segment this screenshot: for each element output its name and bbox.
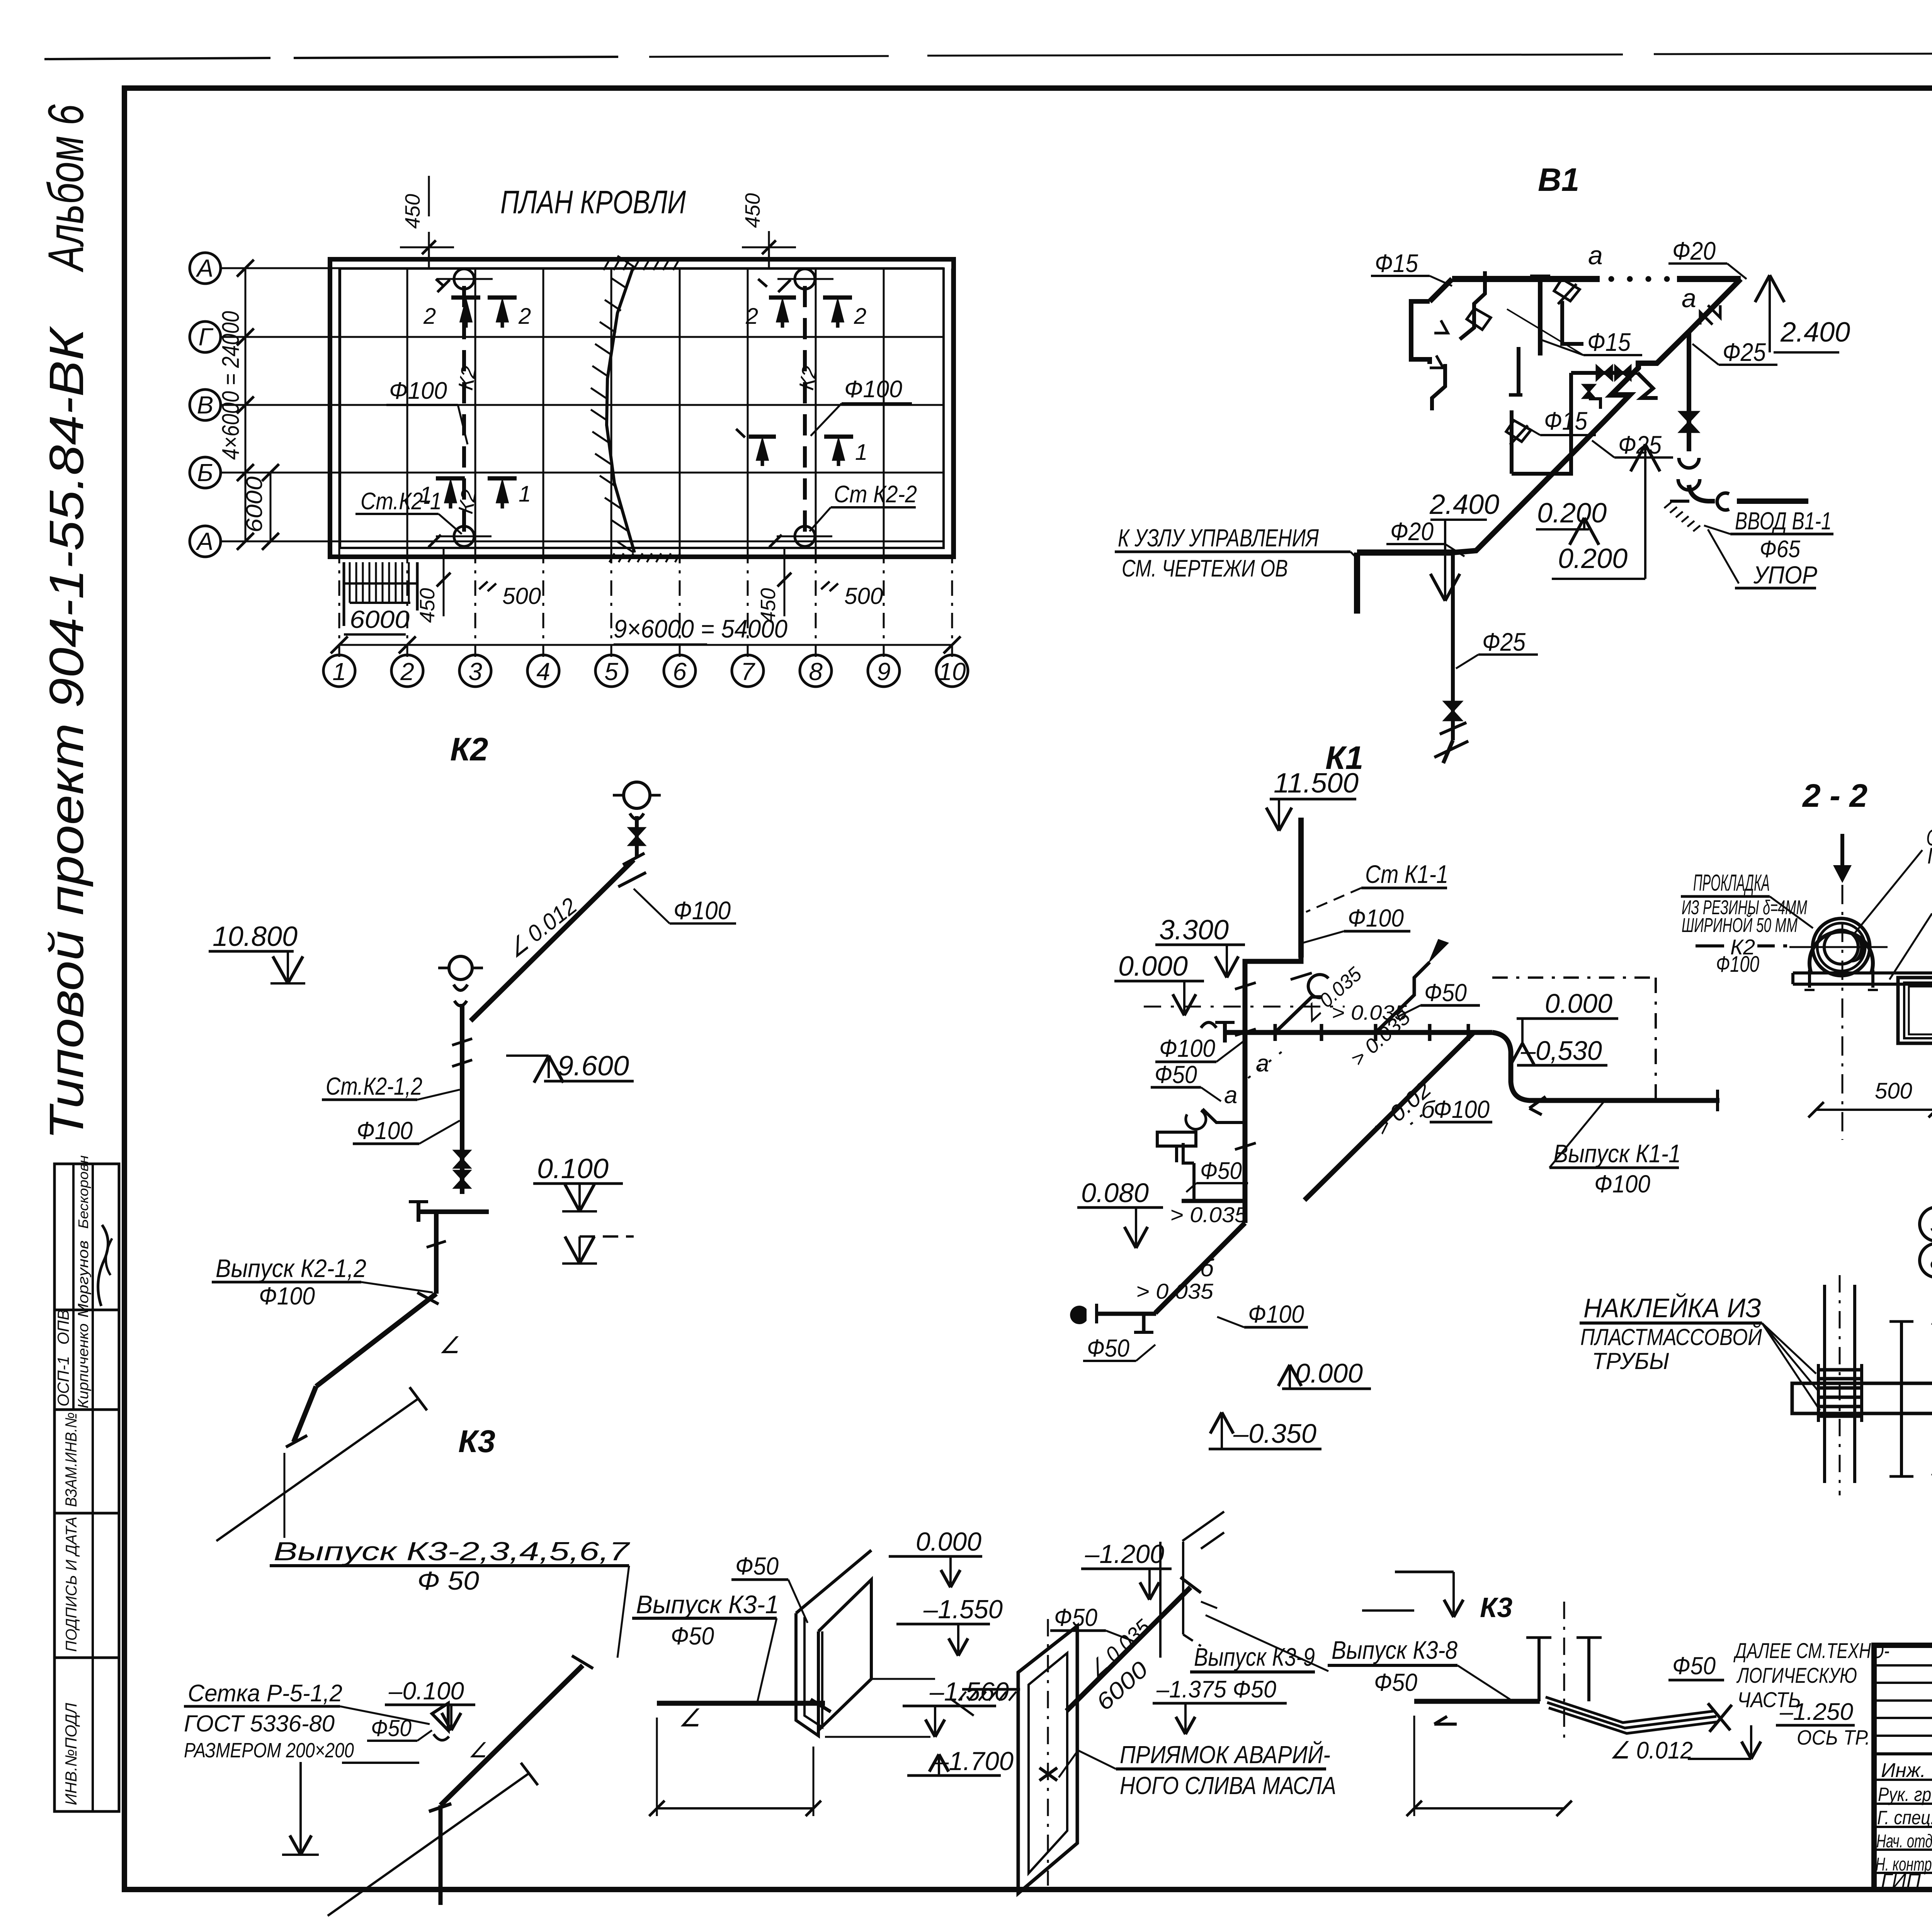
K1 main horizontal collector: [1225, 1030, 1492, 1035]
roof plan vertical grid lines: [338, 269, 340, 548]
dimension 450 top left bay: [428, 232, 430, 268]
svg-text:Ф100: Ф100: [1248, 1300, 1304, 1328]
svg-text:1: 1: [855, 440, 867, 465]
svg-text:Ф20: Ф20: [1672, 236, 1716, 265]
svg-text:ПЛАН КРОВЛИ: ПЛАН КРОВЛИ: [500, 184, 686, 220]
svg-text:ОСЬ ТР.: ОСЬ ТР.: [1797, 1726, 1870, 1749]
K3-8 pipe bundle right: [1546, 1697, 1715, 1723]
B1 check valve on diagonal: [1708, 305, 1720, 318]
K1 bottom horizontal with trap: [1097, 1312, 1156, 1316]
dimension 450 bottom left bay: [443, 548, 445, 616]
svg-text:6000: 6000: [350, 605, 410, 633]
svg-text:ШИРИНОЙ 50 ММ: ШИРИНОЙ 50 ММ: [1682, 914, 1798, 937]
svg-text:В1: В1: [1538, 162, 1579, 198]
K2 vertical drop outside: [434, 1212, 439, 1294]
svg-text:К3: К3: [1480, 1592, 1512, 1623]
paper top trim line: [44, 58, 270, 59]
B1 elbow to entry pipe: [1689, 485, 1715, 501]
B1 main diagonal from top right: [1689, 279, 1741, 332]
svg-text:В: В: [197, 391, 214, 419]
svg-text:10.800: 10.800: [213, 921, 298, 952]
svg-text:Г. спец.: Г. спец.: [1877, 1807, 1932, 1828]
fire ladder symbol bottom left of plan: [343, 562, 345, 626]
svg-text:2.400: 2.400: [1429, 489, 1499, 520]
svg-text:–0.350: –0.350: [1233, 1418, 1316, 1449]
K1 right outlet bend: [1492, 1032, 1568, 1100]
svg-text:0.000: 0.000: [1545, 988, 1612, 1019]
svg-text:Альбом 6: Альбом 6: [37, 104, 94, 272]
K2 parallel ground diagonal: [216, 1399, 418, 1541]
svg-text:ПРОКЛАДКА: ПРОКЛАДКА: [1693, 870, 1770, 896]
riser K2-2 bottom circle StK2-2: [795, 526, 815, 546]
2-2 truss chord box below: [1898, 978, 1932, 1043]
svg-text:ОПВ: ОПВ: [54, 1310, 72, 1345]
B1 compensator hooks: [1679, 458, 1699, 468]
svg-text:Ф100: Ф100: [1716, 952, 1759, 977]
svg-text:–0.100: –0.100: [388, 1677, 464, 1705]
svg-text:Ф100: Ф100: [389, 378, 447, 404]
svg-text:ИНВ.№ПОДЛ: ИНВ.№ПОДЛ: [62, 1703, 80, 1805]
svg-text:К2: К2: [454, 488, 481, 515]
svg-text:Моргунов: Моргунов: [75, 1240, 92, 1318]
svg-text:–1.200: –1.200: [1085, 1539, 1164, 1569]
K1 sink fixture above: [1183, 1143, 1194, 1163]
svg-text:2: 2: [854, 304, 866, 329]
riser K2-2 top circle: [795, 269, 815, 289]
svg-text:1: 1: [519, 481, 531, 507]
svg-text:Ф15: Ф15: [1587, 328, 1631, 356]
K3-8 left arrow: [1434, 1723, 1457, 1726]
svg-text:Б: Б: [197, 459, 213, 486]
svg-text:–1.375 Ф50: –1.375 Ф50: [1156, 1676, 1276, 1703]
svg-text:8: 8: [1930, 1248, 1932, 1274]
K2 level 9.600: [548, 1056, 550, 1078]
svg-text:Ст К2-2: Ст К2-2: [834, 481, 917, 508]
K1 lower diagonal b: [1155, 1223, 1245, 1313]
nakleika center dash line: [1839, 1275, 1841, 1495]
K3-2 lower bend: [439, 1805, 443, 1851]
svg-text:ВВОД В1-1: ВВОД В1-1: [1735, 507, 1832, 535]
svg-text:450: 450: [416, 588, 439, 623]
B1 level 2.400 left: [1444, 520, 1446, 601]
K2 crossing mark on diagonal top: [623, 853, 645, 865]
roof plan top edge hatching near joint: [604, 261, 609, 270]
svg-text:ПРИЯМОК АВАРИЙ-: ПРИЯМОК АВАРИЙ-: [1120, 1740, 1330, 1769]
svg-text:А: А: [196, 254, 214, 282]
svg-text:Ф100: Ф100: [1348, 904, 1404, 932]
svg-text:2: 2: [518, 304, 531, 329]
svg-text:9.600: 9.600: [558, 1051, 629, 1082]
B1 level mark 0.200 center-right: [1644, 444, 1646, 579]
K1 big diagonal to outlet b: [1304, 1032, 1474, 1200]
svg-text:Ф25: Ф25: [1723, 338, 1766, 366]
K1 dashed reference box right: [1492, 976, 1656, 979]
svg-text:Ф50: Ф50: [671, 1622, 714, 1650]
svg-text:0.000: 0.000: [1295, 1358, 1363, 1388]
svg-text:2: 2: [423, 304, 436, 329]
B1 fitting cluster upper left: [1430, 279, 1452, 301]
svg-text:∿: ∿: [1928, 1314, 1932, 1333]
svg-text:∠: ∠: [468, 1739, 487, 1762]
K2 stack vertical StK2: [460, 1004, 464, 1194]
svg-text:Ст К1-1: Ст К1-1: [1365, 860, 1448, 888]
svg-text:450: 450: [401, 194, 424, 229]
dimension 450 top right bay: [768, 231, 770, 268]
roof plan bottom dimension 9x6000=54000: [339, 644, 952, 646]
svg-text:Рук. гр.: Рук. гр.: [1878, 1784, 1932, 1805]
svg-text:Ст.К2-1,2: Ст.К2-1,2: [326, 1072, 422, 1100]
svg-text:1: 1: [420, 482, 432, 507]
K1 tee cleanout bottom: [1142, 1314, 1146, 1332]
B1 valve lower: [1444, 702, 1461, 711]
K3 mesh triangle symbol: [432, 1703, 448, 1730]
svg-text:Сетка Р-5-1,2: Сетка Р-5-1,2: [188, 1680, 342, 1707]
svg-text:СМ. ЧЕРТЕЖИ ОВ: СМ. ЧЕРТЕЖИ ОВ: [1122, 555, 1288, 582]
roof plan column axis circles: [323, 655, 355, 687]
K3-9 cross mark in pit: [1039, 1768, 1057, 1781]
svg-text:ДАЛЕЕ СМ.ТЕХНО-: ДАЛЕЕ СМ.ТЕХНО-: [1733, 1638, 1889, 1663]
svg-text:9: 9: [877, 658, 891, 685]
riser K2-2 dashed line in plan: [803, 286, 807, 537]
B1 zigzag branch lower cluster: [1432, 364, 1445, 410]
left margin box inv n podl: [54, 1658, 119, 1811]
svg-text:Бескоровн: Бескоровн: [75, 1155, 91, 1229]
svg-text:∠: ∠: [439, 1332, 460, 1358]
K1 outlet arrow symbol: [1529, 1097, 1546, 1108]
svg-text:НАКЛЕЙКА ИЗ: НАКЛЕЙКА ИЗ: [1583, 1293, 1761, 1323]
svg-text:3.300: 3.300: [1159, 915, 1229, 946]
svg-text:ГИП: ГИП: [1881, 1870, 1921, 1892]
B1 level 0.200 left duplicate: [1583, 518, 1585, 529]
2-2 center dashdot vertical through ring: [1842, 885, 1844, 1140]
B1 level mark 2.400 right: [1769, 275, 1771, 352]
K2 funnel mid: [449, 956, 472, 980]
roof plan expansion joint arc with hatching: [607, 266, 634, 553]
svg-text:–1.250: –1.250: [1779, 1699, 1853, 1725]
K2 roof funnel top right: [624, 782, 650, 808]
svg-text:0.080: 0.080: [1081, 1178, 1149, 1208]
riser K2-1 dashed line in plan: [462, 286, 466, 537]
svg-text:ПЛАСТМАССОВОЙ: ПЛАСТМАССОВОЙ: [1580, 1324, 1762, 1350]
K3-8 center dash: [1563, 1602, 1565, 1743]
svg-text:К2: К2: [454, 364, 481, 392]
svg-text:0.200: 0.200: [1558, 543, 1628, 574]
B1 lower vertical pipe f25: [1451, 553, 1455, 740]
svg-text:Ф100: Ф100: [844, 376, 902, 403]
svg-text:5: 5: [604, 658, 618, 685]
svg-text:УПОР: УПОР: [1753, 561, 1817, 589]
K3-9 center dash: [1047, 1619, 1049, 1886]
svg-text:Ф20: Ф20: [1390, 517, 1434, 546]
svg-text:0.200: 0.200: [1537, 498, 1607, 529]
svg-text:3: 3: [1930, 1211, 1932, 1238]
B1 ground hatch at entry: [1670, 500, 1689, 503]
svg-text:∠: ∠: [679, 1704, 701, 1732]
B1 small valve zigzag in loop: [1587, 384, 1590, 399]
B1 vertical drop to control node: [1354, 553, 1360, 614]
K3-2 diagonal pipe: [440, 1665, 583, 1805]
K3-1 pipe into pit: [811, 1699, 831, 1712]
svg-text:Ф100: Ф100: [259, 1282, 315, 1310]
K2 tick marks on stack: [452, 1039, 472, 1045]
B1 diamond valve symbols in cluster: [1554, 279, 1580, 301]
K3-2 vertical drop and arrows: [439, 1851, 443, 1905]
svg-text:Инж.: Инж.: [1881, 1759, 1926, 1782]
2-2 thick down arrow: [1840, 834, 1844, 869]
K3-9 diagonal pipe f50: [1066, 1587, 1190, 1711]
svg-text:Ф50: Ф50: [1200, 1158, 1242, 1184]
K3-8 level mark top: [1395, 1571, 1454, 1573]
K3-1 horizontal pipe: [657, 1701, 825, 1706]
roof plan building outline inner: [340, 269, 944, 548]
svg-text:500: 500: [502, 583, 541, 609]
nakleika detail pipe through support: [1823, 1285, 1826, 1483]
svg-text:РАЗМЕРОМ 200×200: РАЗМЕРОМ 200×200: [184, 1739, 354, 1762]
svg-text:ОСП-1: ОСП-1: [54, 1356, 72, 1406]
B1 vertical pipe f25 right: [1687, 332, 1691, 451]
svg-text:11.500: 11.500: [1274, 768, 1359, 799]
svg-text:ПОДПИСЬ И ДАТА: ПОДПИСЬ И ДАТА: [63, 1517, 80, 1652]
svg-text:НОГО СЛИВА МАСЛА: НОГО СЛИВА МАСЛА: [1120, 1772, 1336, 1799]
svg-text:б: б: [1200, 1255, 1214, 1282]
svg-text:500: 500: [1875, 1078, 1912, 1104]
svg-text:–0,530: –0,530: [1520, 1036, 1602, 1066]
svg-text:2: 2: [400, 658, 414, 685]
title block left table row lines: [1874, 1664, 1932, 1667]
svg-text:Г: Г: [199, 323, 214, 351]
svg-text:Типовой проект 904-1-55.84‑В: Типовой проект 904-1-55.84‑ВК: [40, 326, 94, 1140]
svg-text:К УЗЛУ УПРАВЛЕНИЯ: К УЗЛУ УПРАВЛЕНИЯ: [1118, 524, 1319, 552]
B1 main diagonal middle with jog: [1532, 332, 1689, 494]
K3-2 ground diagonal thin: [328, 1774, 529, 1916]
roof plan row axis circles: [190, 253, 221, 284]
svg-text:Выпуск К1-1: Выпуск К1-1: [1553, 1139, 1681, 1168]
svg-text:–1.560: –1.560: [929, 1677, 1009, 1706]
K2 outlet diagonal vypusk: [316, 1294, 436, 1386]
svg-text:Ф50: Ф50: [1155, 1061, 1197, 1088]
svg-text:а: а: [1224, 1082, 1237, 1109]
K2 lower tick: [284, 1453, 286, 1538]
K3-2 tee: [429, 1804, 451, 1811]
svg-text:2: 2: [745, 304, 758, 329]
K2 tee symbol: [417, 1202, 420, 1222]
left margin box podpis i data: [54, 1513, 119, 1658]
2-2 anchor ticks at saddle feet: [1808, 970, 1811, 988]
2-2 support beam strip: [1793, 971, 1932, 975]
K1 stack top vertical: [1298, 818, 1304, 957]
svg-text:Ф 50: Ф 50: [417, 1566, 479, 1595]
svg-text:Ф15: Ф15: [1544, 406, 1587, 435]
2-2 crescent in ring: [1851, 932, 1866, 963]
nakleika right truss column: [1900, 1321, 1903, 1476]
svg-text:ГОСТ 14911-69*: ГОСТ 14911-69*: [1927, 844, 1932, 869]
roof plan bottom dimension 6000: [331, 636, 348, 653]
roof plan bottom edge hatching near joint: [609, 553, 614, 562]
svg-text:8: 8: [809, 658, 823, 685]
svg-text:500: 500: [844, 583, 883, 609]
svg-text:7: 7: [741, 658, 755, 685]
K2 bottom horizontal pipe: [418, 1209, 489, 1214]
K3-9 ground hatch left: [962, 1688, 1020, 1691]
svg-text:10: 10: [938, 658, 966, 685]
svg-text:ТРУБЫ: ТРУБЫ: [1592, 1348, 1669, 1374]
K1 left faucet branch: [1202, 1109, 1229, 1122]
left margin signature table upper: [54, 1164, 119, 1410]
svg-text:Ф100: Ф100: [1159, 1034, 1215, 1062]
svg-text:Ф100: Ф100: [357, 1117, 413, 1145]
svg-text:∠ 0.012: ∠ 0.012: [1610, 1737, 1693, 1764]
svg-text:∿: ∿: [1928, 1465, 1932, 1484]
K2 valves on stack bottom: [454, 1151, 470, 1159]
K2 vent pipe below funnel: [635, 816, 639, 857]
K3-8 dim line below: [1413, 1716, 1415, 1816]
svg-text:0.100: 0.100: [537, 1153, 609, 1184]
svg-text:К2: К2: [795, 364, 822, 392]
K1 tick marks on stack: [1291, 973, 1312, 980]
svg-text:Ф100: Ф100: [673, 896, 731, 925]
K3-9 wall above pit: [1159, 1542, 1162, 1658]
riser K2-1 bottom circle StK2-1: [454, 526, 474, 546]
svg-text:а: а: [1256, 1050, 1269, 1077]
svg-text:ВЗАМ.ИНВ.№: ВЗАМ.ИНВ.№: [62, 1412, 80, 1507]
K1 outlet continues right: [1568, 1098, 1719, 1103]
nakleika support strip: [1792, 1383, 1932, 1413]
B1 P-loop with twin valves: [1512, 373, 1571, 474]
K1 stack jog: [1245, 957, 1301, 1223]
svg-text:ГОСТ 5336-80: ГОСТ 5336-80: [184, 1711, 335, 1736]
K3 left level lines: [299, 1762, 302, 1842]
roof funnel symbols right bay: [736, 429, 745, 437]
svg-text:450: 450: [757, 588, 780, 623]
K3-1 bottom dim line: [656, 1718, 658, 1816]
K1 tees on collector: [1274, 1024, 1277, 1041]
svg-text:Ф15: Ф15: [1375, 249, 1418, 277]
svg-text:Ф100: Ф100: [1434, 1095, 1490, 1123]
2-2 ring axis line: [1789, 946, 1888, 948]
roof plan building outline outer: [330, 259, 954, 557]
nakleika sleeve marks: [1818, 1368, 1862, 1372]
svg-text:Выпуск К3-1: Выпуск К3-1: [636, 1590, 779, 1619]
K3-8 riser column: [1537, 1638, 1541, 1701]
svg-text:А: А: [196, 527, 214, 555]
svg-text:3: 3: [468, 658, 482, 685]
svg-text:2 - 2: 2 - 2: [1802, 777, 1867, 814]
K2 level line right: [580, 1235, 634, 1238]
svg-text:–1.550: –1.550: [923, 1595, 1003, 1624]
svg-text:Выпуск К3-8: Выпуск К3-8: [1332, 1636, 1458, 1664]
svg-text:> 0.035: > 0.035: [1136, 1279, 1214, 1303]
B1 top main pipe f20: [1452, 276, 1600, 282]
svg-text:а: а: [1588, 241, 1603, 270]
riser K2-1 top circle: [454, 269, 474, 289]
K2 ground line below outlet: [294, 1386, 316, 1442]
title block outer box: [1874, 1645, 1932, 1889]
roof plan horizontal grid lines: [221, 267, 944, 269]
K1 collector left end cleanout: [1223, 1022, 1227, 1043]
svg-text:0.000: 0.000: [916, 1527, 981, 1556]
svg-text:Нач. отд.: Нач. отд.: [1876, 1831, 1932, 1852]
detail circle 8 top: [1932, 1260, 1932, 1261]
svg-text:Выпуск К3-2,3,4,5,6,7: Выпуск К3-2,3,4,5,6,7: [274, 1537, 630, 1566]
svg-text:ЛОГИЧЕСКУЮ: ЛОГИЧЕСКУЮ: [1736, 1663, 1857, 1687]
svg-text:К3: К3: [458, 1424, 495, 1459]
svg-text:6000: 6000: [242, 476, 267, 532]
svg-text:Ф25: Ф25: [1482, 628, 1526, 656]
svg-text:1: 1: [332, 658, 346, 685]
dimension 450 bottom right bay: [784, 548, 786, 616]
2-2 label K2 f100 left: [1696, 944, 1724, 947]
svg-text:6: 6: [673, 658, 687, 685]
B1 small triangle vents: [1434, 320, 1448, 333]
roof plan left dimension 4x6000=24000: [245, 268, 247, 541]
B1 pipe f20 horizontal to control node: [1357, 549, 1454, 556]
K2 main diagonal f100: [471, 860, 634, 1021]
svg-text:0.000: 0.000: [1118, 951, 1188, 982]
svg-text:Ф50: Ф50: [1087, 1334, 1129, 1362]
svg-text:Ф50: Ф50: [1374, 1668, 1417, 1696]
left margin box vzam inv: [54, 1410, 119, 1513]
svg-text:а: а: [1682, 284, 1696, 313]
svg-text:4×6000 = 24000: 4×6000 = 24000: [218, 311, 244, 460]
svg-text:450: 450: [741, 193, 764, 228]
B1 lower end crossing: [1440, 723, 1466, 734]
roof plan left dimension 6000 row: [270, 473, 272, 541]
B1 valve on vertical f25: [1680, 412, 1698, 422]
K3-9 pit prism parallelogram: [1018, 1626, 1077, 1893]
K3-1 pit prism: [796, 1550, 871, 1613]
K1 branch a upper with fixtures: [1275, 997, 1321, 1032]
svg-text:Кирпиченко: Кирпиченко: [75, 1323, 92, 1408]
2-2 support saddle: [1810, 932, 1873, 973]
svg-text:4: 4: [536, 658, 550, 685]
2-2 pipe ring on support: [1813, 918, 1870, 976]
svg-text:Ф65: Ф65: [1760, 536, 1800, 563]
svg-text:К2: К2: [450, 731, 488, 767]
svg-text:–1.700: –1.700: [934, 1747, 1014, 1776]
svg-text:Ф50: Ф50: [735, 1552, 779, 1580]
K1 lower left branch horizontal: [1182, 1199, 1245, 1203]
svg-text:Ф25: Ф25: [1618, 430, 1662, 459]
K3-8 horizontal pipe: [1414, 1699, 1540, 1704]
svg-text:> 0.035: > 0.035: [1170, 1202, 1248, 1227]
svg-text:Ф50: Ф50: [1672, 1652, 1716, 1680]
svg-text:2.400: 2.400: [1780, 317, 1850, 348]
svg-text:Ф50: Ф50: [1424, 979, 1467, 1007]
svg-text:Выпуск К2-1,2: Выпуск К2-1,2: [216, 1254, 366, 1282]
2-2 axis circles 3 and 8: [1920, 1207, 1932, 1241]
svg-text:Ф100: Ф100: [1594, 1170, 1650, 1198]
